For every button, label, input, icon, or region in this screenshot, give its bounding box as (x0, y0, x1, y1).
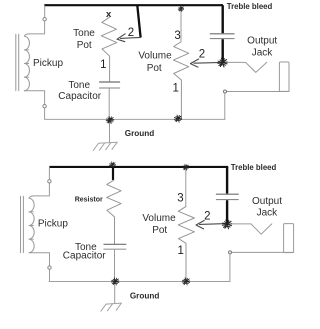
wire thick treble bleed to wiper junction (221, 39, 223, 62)
node: resistor to bus (109, 162, 115, 168)
wire thick treble bleed drop (221, 5, 223, 33)
pickup2 terminal bottom (48, 266, 51, 269)
treble bleed capacitor C4 (216, 193, 239, 195)
svg-text:Jack: Jack (252, 48, 274, 59)
svg-text:Treble bleed: Treble bleed (227, 2, 273, 11)
svg-text:Tone: Tone (68, 80, 90, 91)
wire sleeve2 to ground bus (229, 254, 231, 282)
svg-text:Ground: Ground (125, 129, 155, 138)
wire pickup2 bottom lead (29, 253, 49, 282)
pickup terminal top (43, 18, 46, 21)
svg-text:Ground: Ground (130, 292, 160, 301)
wire thick stub to resistor (112, 167, 114, 180)
wire pickup bottom lead (24, 91, 44, 120)
pickup P1 coil cusp ticks (24, 50, 28, 77)
svg-text:1: 1 (172, 83, 178, 95)
svg-text:Capacitor: Capacitor (58, 91, 101, 102)
node: volume2 1 to ground (182, 278, 190, 285)
wire sleeve to ground bus (224, 93, 226, 119)
node: volume 3 to bus (178, 6, 184, 11)
tone capacitor C1 (99, 81, 120, 83)
svg-text:Treble bleed: Treble bleed (231, 163, 277, 172)
wire ground stem (109, 120, 111, 142)
svg-text:Capacitor: Capacitor (63, 251, 106, 262)
tone capacitor C3 (104, 243, 127, 245)
pickup terminal bottom (43, 105, 46, 108)
ground symbol (93, 142, 117, 150)
svg-text:3: 3 (177, 192, 183, 204)
svg-text:Jack: Jack (257, 208, 279, 219)
svg-text:Pickup: Pickup (33, 58, 63, 69)
svg-text:2: 2 (199, 49, 205, 61)
tone pot R zigzag (101, 17, 117, 82)
volume wiper arrow (194, 61, 222, 64)
wire output sleeve 2 (232, 251, 294, 253)
pickup P1 core (16, 34, 19, 90)
svg-text:x: x (106, 9, 112, 20)
svg-text:Output: Output (247, 35, 277, 46)
wire tone cap to ground bus (108, 89, 110, 120)
sleeve terminal (224, 90, 227, 93)
svg-text:1: 1 (100, 59, 106, 71)
node: tone cap to ground (106, 116, 114, 123)
svg-text:2: 2 (128, 27, 134, 39)
svg-text:Tone: Tone (73, 28, 95, 39)
svg-text:Output: Output (252, 196, 282, 207)
wire volume pot2 3 to bus (185, 168, 187, 207)
volume pot R zigzag (173, 42, 188, 119)
volume pot2 R zigzag (178, 207, 194, 282)
wire thick treble bleed drop 2 (226, 167, 228, 194)
wire output sleeve (227, 91, 289, 93)
svg-text:Volume: Volume (138, 51, 172, 62)
node: wiper/treble/output junction (218, 58, 227, 67)
wire ground bus (45, 118, 225, 120)
wire ground bus 2 (49, 281, 230, 283)
wire hot bus 2 (thick) (49, 166, 228, 168)
wire thick treble bleed2 to wiper junction (226, 200, 228, 223)
node: tone cap2 to ground (111, 278, 119, 285)
svg-text:Pot: Pot (77, 40, 92, 51)
output jack body 2 (284, 224, 294, 253)
volume2 wiper arrow (200, 223, 227, 226)
resistor R1 zigzag (107, 180, 122, 244)
pickup P2 core (21, 196, 24, 252)
svg-text:Pot: Pot (152, 225, 167, 236)
wire volume pot 3 to bus (180, 6, 182, 42)
svg-text:3: 3 (174, 30, 180, 42)
svg-text:Pickup: Pickup (38, 218, 68, 229)
wire ground stem 2 (114, 282, 116, 303)
wire hot bus (thick) (44, 4, 223, 6)
pickup P1 coil (24, 36, 29, 91)
svg-text:Resistor: Resistor (75, 197, 103, 204)
svg-text:2: 2 (204, 211, 210, 223)
wire output tip (227, 62, 267, 72)
svg-text:1: 1 (177, 245, 183, 257)
sleeve terminal 2 (229, 251, 232, 254)
ground symbol 2 (101, 303, 122, 311)
pickup2 terminal top (48, 180, 51, 183)
svg-text:Volume: Volume (142, 213, 176, 224)
tone wiper arrow (121, 37, 141, 38)
wire thick drop to tone wiper (137, 5, 140, 37)
wire tone cap2 to ground bus (114, 250, 116, 282)
treble bleed capacitor C2 (210, 33, 235, 35)
node: volume 1 to ground (174, 115, 182, 122)
pickup P2 coil cusp ticks (29, 212, 33, 239)
node: wiper2/treble2/output junction (222, 220, 231, 229)
wire pickup2 top lead (29, 168, 49, 198)
svg-text:Pot: Pot (147, 63, 162, 74)
wire output tip 2 (232, 224, 272, 234)
wire pickup top lead (24, 6, 44, 36)
pickup P2 coil (29, 198, 34, 253)
node: volume2 3 to bus (183, 164, 189, 170)
output jack body (279, 62, 289, 91)
